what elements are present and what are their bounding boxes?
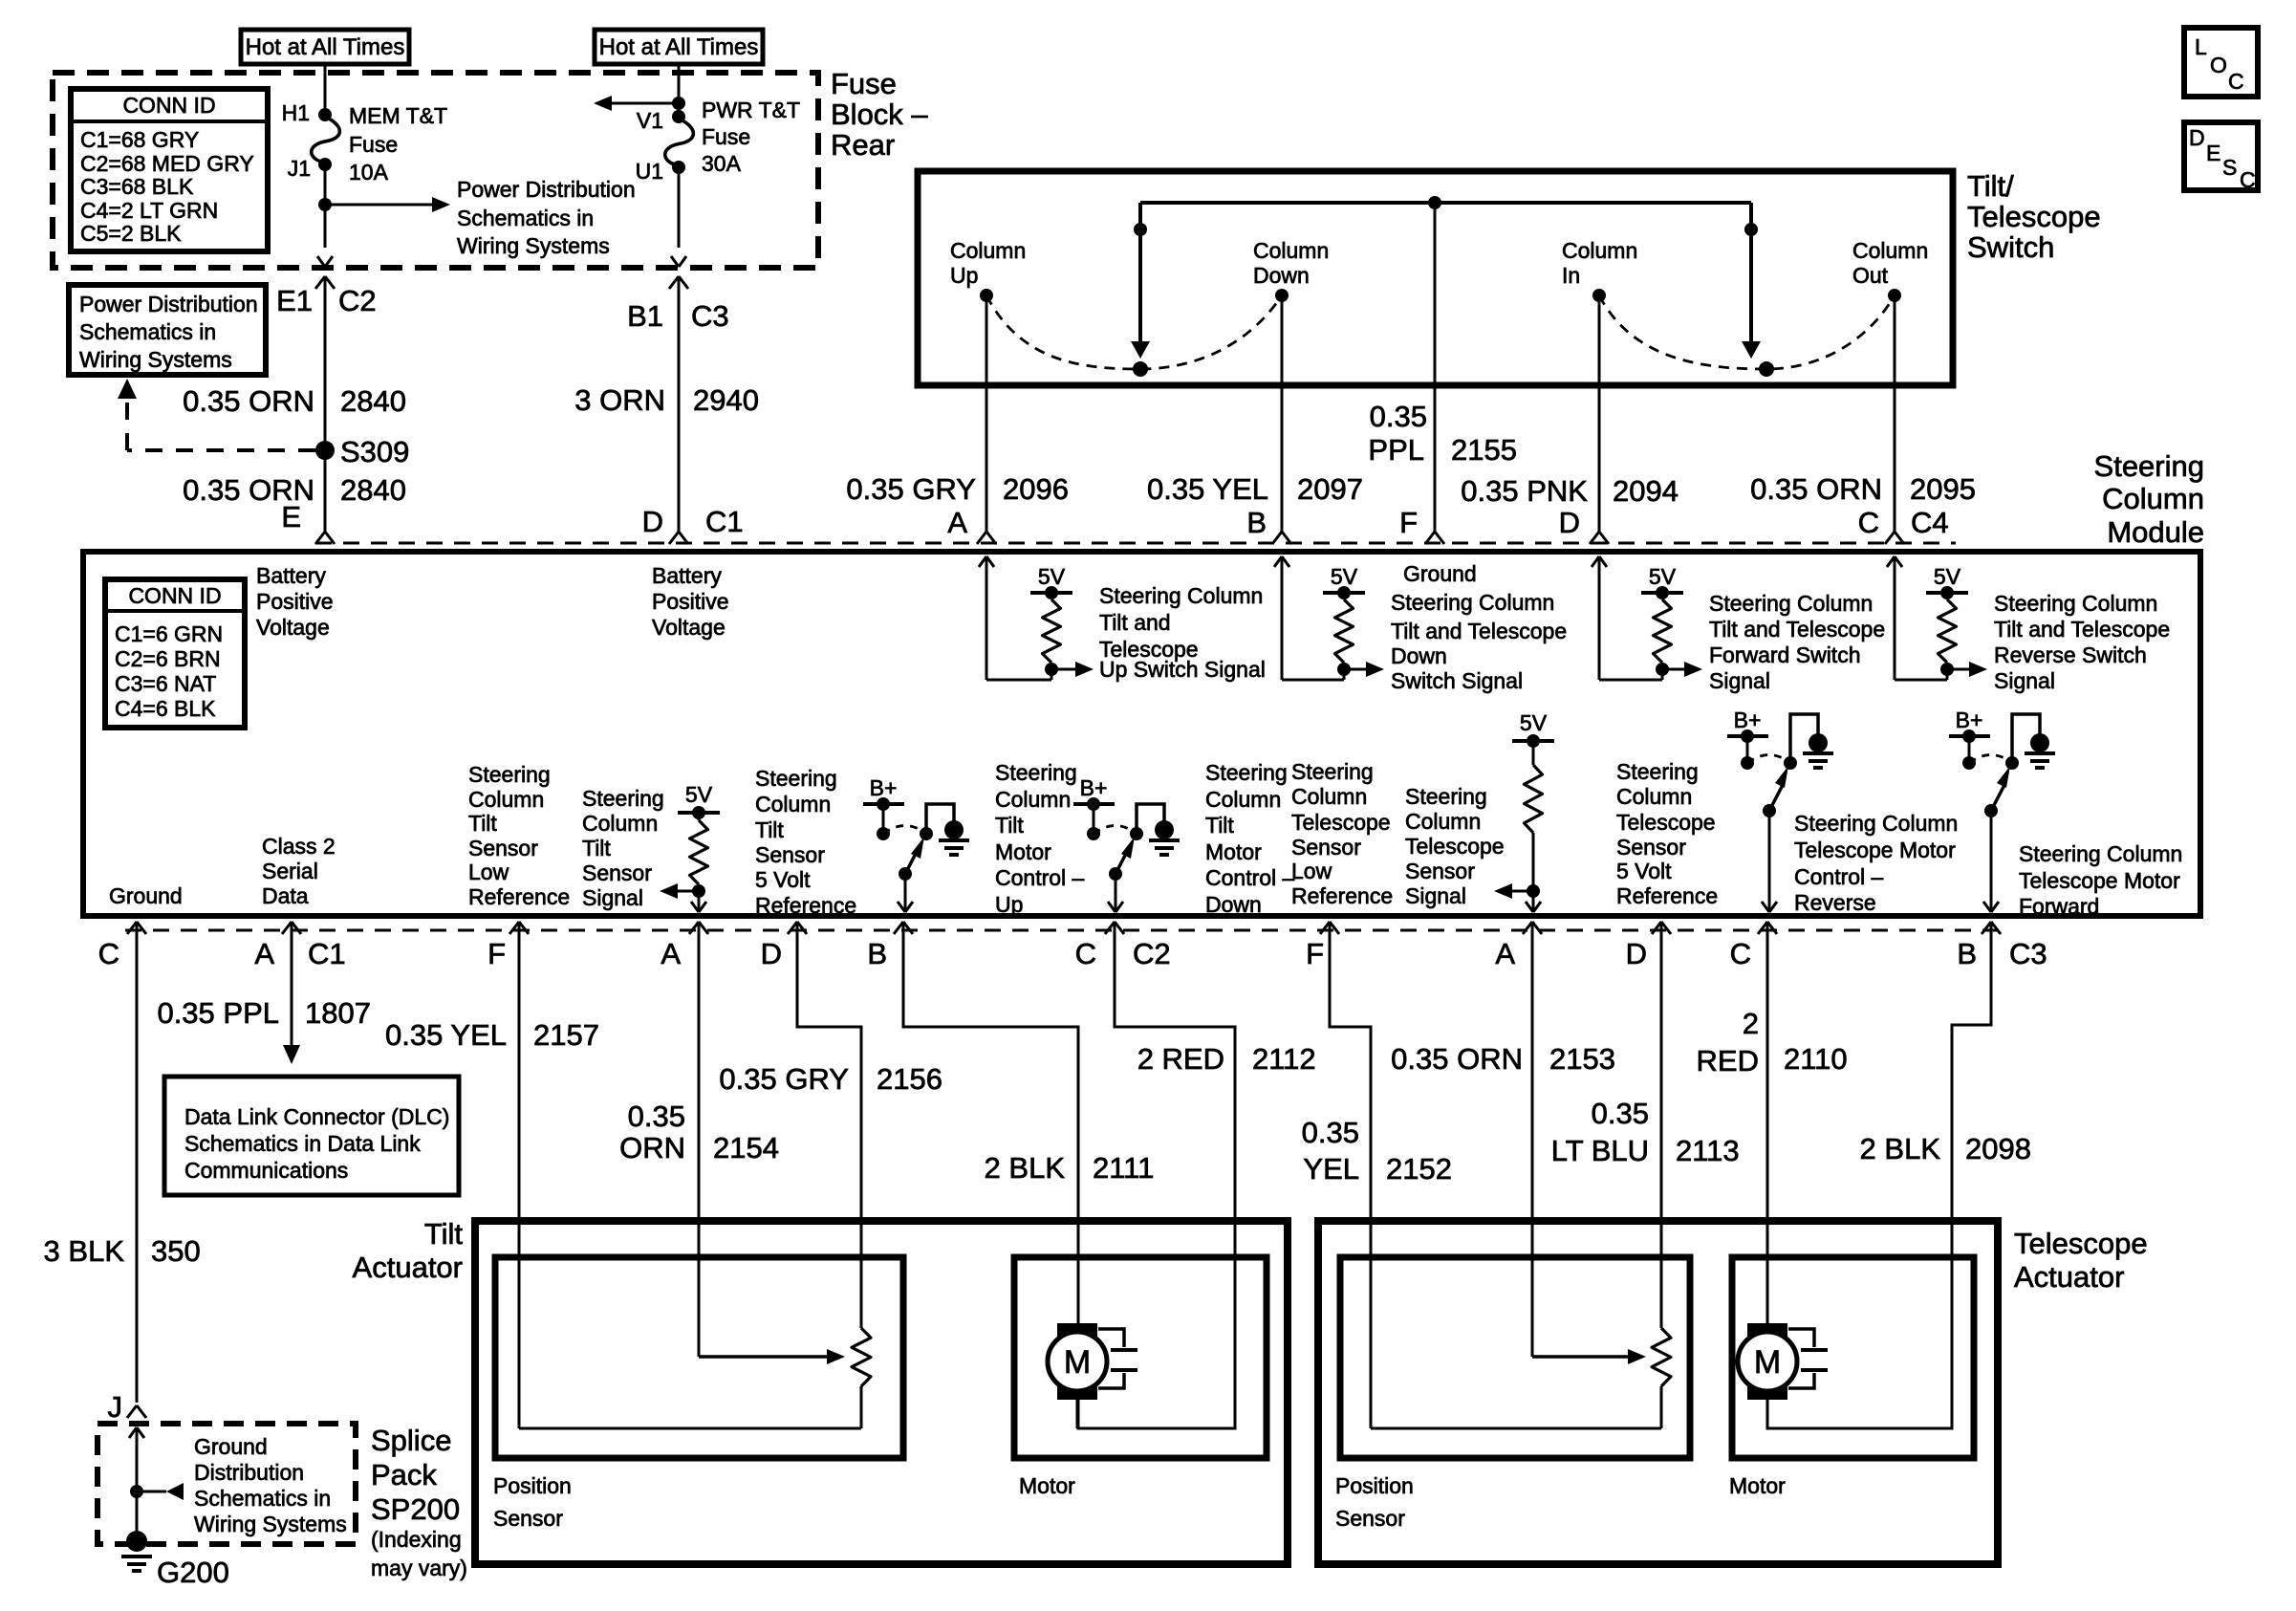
svg-text:0.35 GRY: 0.35 GRY [846,472,976,506]
svg-text:Sensor: Sensor [493,1506,563,1531]
svg-text:2157: 2157 [533,1018,599,1052]
svg-text:Actuator: Actuator [353,1251,463,1284]
svg-text:Steering: Steering [1205,760,1288,785]
svg-text:2110: 2110 [1784,1042,1848,1076]
svg-text:Reverse Switch: Reverse Switch [1994,642,2147,667]
svg-text:Column: Column [1291,784,1367,809]
svg-text:Splice: Splice [371,1424,451,1457]
svg-text:Tilt: Tilt [582,836,611,860]
svg-text:SP200: SP200 [371,1492,460,1526]
svg-text:Battery: Battery [256,563,326,588]
svg-text:B: B [1957,937,1977,970]
svg-text:Up Switch Signal: Up Switch Signal [1099,657,1266,682]
svg-text:Steering: Steering [755,766,837,791]
svg-text:5V: 5V [685,782,713,807]
svg-text:B+: B+ [1734,708,1762,732]
svg-text:C: C [1730,937,1751,970]
svg-text:Column: Column [1405,809,1481,834]
svg-text:C2: C2 [1133,937,1171,970]
svg-text:YEL: YEL [1303,1152,1359,1186]
svg-text:Tilt: Tilt [755,817,784,842]
svg-text:Steering: Steering [1616,759,1699,784]
svg-text:Reference: Reference [1616,883,1718,908]
svg-text:Tilt and Telescope: Tilt and Telescope [1994,617,2170,642]
svg-text:D: D [1559,506,1580,539]
svg-text:CONN ID: CONN ID [122,93,215,118]
svg-text:LT BLU: LT BLU [1551,1134,1649,1167]
svg-text:Column: Column [755,792,831,816]
svg-text:Motor: Motor [1205,839,1262,864]
svg-text:5 Volt: 5 Volt [1616,859,1672,883]
svg-text:Schematics in: Schematics in [194,1486,331,1511]
svg-text:Tilt: Tilt [995,813,1024,838]
svg-text:Positive: Positive [652,589,729,614]
svg-text:C4=6 BLK: C4=6 BLK [115,696,216,721]
svg-text:0.35 PNK: 0.35 PNK [1461,474,1588,508]
svg-text:Tilt: Tilt [468,811,497,836]
svg-text:0.35: 0.35 [1592,1097,1649,1130]
svg-text:Pack: Pack [371,1458,437,1491]
svg-text:2097: 2097 [1297,472,1363,506]
svg-text:B+: B+ [1080,775,1108,800]
svg-text:Down: Down [1391,643,1447,668]
svg-text:M: M [1754,1344,1781,1381]
svg-text:Signal: Signal [1994,668,2055,693]
svg-text:Telescope: Telescope [1405,834,1505,859]
svg-text:Position: Position [1335,1473,1414,1498]
svg-text:350: 350 [151,1234,201,1268]
svg-text:Tilt and: Tilt and [1099,610,1171,635]
svg-text:Sensor: Sensor [755,842,825,867]
svg-text:0.35: 0.35 [1302,1116,1359,1149]
svg-text:Power Distribution: Power Distribution [79,292,258,316]
svg-text:0.35 ORN: 0.35 ORN [1750,472,1882,506]
svg-text:Sensor: Sensor [1335,1506,1405,1531]
svg-text:L: L [2195,34,2207,59]
svg-text:C1: C1 [308,937,346,970]
svg-text:Communications: Communications [184,1158,348,1183]
svg-text:D: D [761,937,782,970]
svg-text:Tilt and Telescope: Tilt and Telescope [1391,619,1567,643]
svg-text:Low: Low [1291,859,1332,883]
svg-text:Column: Column [950,238,1026,263]
svg-text:Motor: Motor [1729,1473,1786,1498]
svg-text:PPL: PPL [1368,433,1424,467]
svg-text:E1: E1 [276,284,313,317]
svg-text:Block –: Block – [831,98,928,131]
svg-text:2113: 2113 [1676,1134,1740,1167]
svg-text:10A: 10A [349,160,389,185]
svg-text:Reverse: Reverse [1794,890,1876,915]
svg-text:Motor: Motor [1019,1473,1075,1498]
svg-text:Forward Switch: Forward Switch [1709,642,1860,667]
svg-text:2096: 2096 [1003,472,1069,506]
svg-text:Wiring Systems: Wiring Systems [79,347,232,372]
svg-text:Column: Column [1852,238,1928,263]
svg-text:2940: 2940 [693,383,759,417]
svg-text:Telescope: Telescope [2014,1227,2148,1260]
svg-text:5V: 5V [1331,564,1358,589]
svg-text:2112: 2112 [1252,1042,1316,1076]
svg-text:Class 2: Class 2 [262,834,336,859]
svg-text:Fuse: Fuse [831,67,897,100]
svg-text:Down: Down [1253,263,1310,288]
svg-text:3 ORN: 3 ORN [574,383,665,417]
svg-text:2 RED: 2 RED [1137,1042,1224,1076]
svg-text:2098: 2098 [1965,1132,2031,1165]
svg-text:Steering: Steering [468,762,551,787]
svg-text:2155: 2155 [1451,433,1517,467]
svg-text:H1: H1 [282,100,310,125]
svg-text:C3=6 NAT: C3=6 NAT [115,671,216,696]
svg-text:2 BLK: 2 BLK [985,1151,1066,1185]
svg-text:Out: Out [1852,263,1889,288]
svg-text:Telescope Motor: Telescope Motor [2019,868,2180,893]
svg-text:C1=6 GRN: C1=6 GRN [115,621,223,646]
svg-text:Wiring Systems: Wiring Systems [194,1512,347,1536]
svg-text:2840: 2840 [340,384,406,418]
svg-text:Switch: Switch [1967,230,2054,264]
svg-text:Column: Column [468,787,544,812]
svg-text:0.35: 0.35 [628,1099,685,1133]
svg-text:B: B [867,937,887,970]
svg-text:PWR T&T: PWR T&T [702,98,800,122]
svg-text:Sensor: Sensor [468,836,538,860]
svg-text:5V: 5V [1038,564,1066,589]
svg-text:Column: Column [1616,784,1692,809]
svg-text:Positive: Positive [256,589,334,614]
svg-text:C: C [2228,69,2244,94]
svg-text:Fuse: Fuse [702,124,750,149]
svg-text:Up: Up [950,263,978,288]
svg-text:O: O [2210,53,2227,77]
svg-text:C5=2 BLK: C5=2 BLK [80,221,182,246]
svg-text:2: 2 [1743,1007,1759,1040]
svg-text:0.35 PPL: 0.35 PPL [157,996,279,1030]
svg-text:Steering Column: Steering Column [2019,841,2182,866]
svg-text:F: F [487,937,506,970]
svg-text:Voltage: Voltage [652,615,726,640]
svg-text:1807: 1807 [305,996,371,1030]
svg-text:C: C [1075,937,1096,970]
svg-text:Rear: Rear [831,128,895,162]
svg-text:B+: B+ [1956,708,1983,732]
svg-text:A: A [1495,937,1515,970]
svg-text:B1: B1 [627,299,663,333]
svg-text:Position: Position [493,1473,572,1498]
svg-text:0.35 YEL: 0.35 YEL [385,1018,507,1052]
svg-text:S309: S309 [340,435,409,468]
svg-text:Control –: Control – [995,865,1085,890]
svg-text:Tilt/: Tilt/ [1967,169,2014,203]
svg-text:5 Volt: 5 Volt [755,867,811,892]
svg-text:(Indexing: (Indexing [371,1527,462,1552]
svg-text:D: D [642,505,663,538]
svg-text:Steering Column: Steering Column [1709,591,1873,616]
svg-text:0.35 ORN: 0.35 ORN [183,384,314,418]
svg-text:Forward: Forward [2019,894,2099,919]
svg-text:Schematics in Data Link: Schematics in Data Link [184,1131,421,1156]
svg-text:0.35 GRY: 0.35 GRY [719,1062,849,1096]
svg-text:Schematics in: Schematics in [79,319,216,344]
svg-text:Tilt: Tilt [424,1217,464,1251]
svg-text:C: C [2240,167,2256,192]
svg-text:C3=68 BLK: C3=68 BLK [80,174,194,199]
svg-text:C: C [98,937,119,970]
svg-text:Sensor: Sensor [1405,859,1475,883]
svg-text:Reference: Reference [1291,883,1393,908]
svg-text:C2: C2 [338,284,377,317]
svg-text:G200: G200 [157,1556,229,1589]
svg-text:C4: C4 [1911,506,1949,539]
svg-text:Steering Column: Steering Column [1994,591,2157,616]
svg-text:C3: C3 [691,299,729,333]
svg-text:Data Link Connector (DLC): Data Link Connector (DLC) [184,1104,449,1129]
svg-text:S: S [2222,155,2237,180]
svg-text:Steering: Steering [1405,784,1487,809]
svg-text:2095: 2095 [1910,472,1976,506]
svg-text:2152: 2152 [1386,1152,1452,1186]
svg-text:2156: 2156 [877,1062,942,1096]
svg-text:RED: RED [1697,1044,1759,1078]
svg-text:C4=2 LT GRN: C4=2 LT GRN [80,198,218,223]
svg-text:Schematics in: Schematics in [457,206,594,230]
svg-text:D: D [2189,125,2205,150]
svg-text:Steering: Steering [2094,449,2204,483]
svg-text:Low: Low [468,860,509,884]
svg-text:Telescope Motor: Telescope Motor [1794,838,1956,862]
svg-text:CONN ID: CONN ID [128,583,221,608]
svg-text:Steering: Steering [582,786,664,811]
svg-text:C2=68 MED GRY: C2=68 MED GRY [80,151,254,176]
svg-text:M: M [1064,1344,1091,1381]
svg-text:Sensor: Sensor [582,860,652,885]
svg-text:V1: V1 [637,108,663,133]
svg-text:0.35: 0.35 [1370,400,1427,433]
svg-text:B+: B+ [870,775,898,800]
svg-text:Sensor: Sensor [1291,835,1361,860]
svg-text:Ground: Ground [109,883,183,908]
svg-text:Actuator: Actuator [2014,1260,2124,1294]
svg-text:3 BLK: 3 BLK [44,1234,125,1268]
svg-text:Battery: Battery [652,563,722,588]
svg-text:Steering: Steering [995,760,1077,785]
svg-text:C3: C3 [2009,937,2047,970]
svg-text:C2=6 BRN: C2=6 BRN [115,646,221,671]
svg-text:Column: Column [995,787,1071,812]
svg-text:ORN: ORN [619,1131,685,1165]
svg-text:Tilt: Tilt [1205,813,1234,838]
svg-text:Signal: Signal [1405,883,1466,908]
svg-text:E: E [2206,141,2220,165]
svg-text:F: F [1399,506,1418,539]
svg-text:Reference: Reference [468,884,570,909]
svg-text:Steering Column: Steering Column [1794,811,1958,836]
svg-text:2840: 2840 [340,473,406,507]
svg-text:Hot at All Times: Hot at All Times [246,34,405,60]
svg-text:D: D [1626,937,1647,970]
svg-text:Wiring Systems: Wiring Systems [457,233,610,258]
svg-text:Steering Column: Steering Column [1391,590,1554,615]
svg-text:In: In [1562,263,1580,288]
svg-text:2 BLK: 2 BLK [1860,1132,1941,1165]
svg-text:C: C [1858,506,1879,539]
svg-text:Column: Column [1562,238,1637,263]
svg-text:Ground: Ground [194,1434,268,1459]
svg-text:J: J [108,1390,123,1424]
svg-text:Column: Column [582,811,658,836]
svg-text:2153: 2153 [1549,1042,1615,1076]
svg-text:Column: Column [1253,238,1329,263]
svg-text:30A: 30A [702,151,742,176]
svg-text:Signal: Signal [1709,668,1770,693]
svg-text:5V: 5V [1649,564,1677,589]
svg-text:Tilt and Telescope: Tilt and Telescope [1709,617,1885,642]
svg-text:Distribution: Distribution [194,1460,304,1485]
svg-text:5V: 5V [1934,564,1961,589]
svg-text:2111: 2111 [1093,1151,1154,1185]
svg-text:A: A [661,937,681,970]
svg-text:Ground: Ground [1403,561,1477,586]
svg-text:Control –: Control – [1794,864,1884,889]
svg-text:Switch Signal: Switch Signal [1391,668,1523,693]
svg-text:C1=68 GRY: C1=68 GRY [80,127,199,152]
svg-text:may vary): may vary) [371,1556,467,1580]
svg-text:E: E [281,500,301,533]
svg-text:Down: Down [1205,892,1262,917]
svg-text:B: B [1246,506,1267,539]
svg-text:C1: C1 [705,505,744,538]
svg-text:2094: 2094 [1613,474,1679,508]
svg-text:0.35 YEL: 0.35 YEL [1147,472,1268,506]
svg-text:Serial: Serial [262,859,318,883]
svg-text:A: A [947,506,967,539]
svg-text:Up: Up [995,892,1023,917]
svg-text:Column: Column [1205,787,1281,812]
svg-text:MEM T&T: MEM T&T [349,103,447,128]
svg-text:Data: Data [262,883,309,908]
svg-text:Steering Column: Steering Column [1099,583,1263,608]
svg-text:Module: Module [2107,515,2204,549]
svg-text:Voltage: Voltage [256,615,330,640]
svg-text:Hot at All Times: Hot at All Times [599,34,759,60]
svg-text:5V: 5V [1520,710,1548,735]
svg-text:U1: U1 [636,159,663,184]
svg-text:Power Distribution: Power Distribution [457,177,636,202]
svg-text:Telescope: Telescope [1967,200,2101,233]
svg-text:Fuse: Fuse [349,132,398,157]
svg-text:0.35 ORN: 0.35 ORN [1391,1042,1523,1076]
svg-text:Telescope: Telescope [1291,810,1391,835]
svg-text:F: F [1306,937,1324,970]
svg-text:Signal: Signal [582,885,643,910]
svg-text:Control –: Control – [1205,865,1295,890]
svg-text:J1: J1 [288,156,311,181]
svg-text:Telescope: Telescope [1616,810,1716,835]
svg-text:Column: Column [2102,482,2204,515]
svg-text:Reference: Reference [755,893,856,918]
svg-text:Steering: Steering [1291,759,1374,784]
svg-text:Motor: Motor [995,839,1051,864]
svg-text:2154: 2154 [713,1131,779,1165]
svg-text:Sensor: Sensor [1616,835,1686,860]
svg-text:A: A [254,937,274,970]
